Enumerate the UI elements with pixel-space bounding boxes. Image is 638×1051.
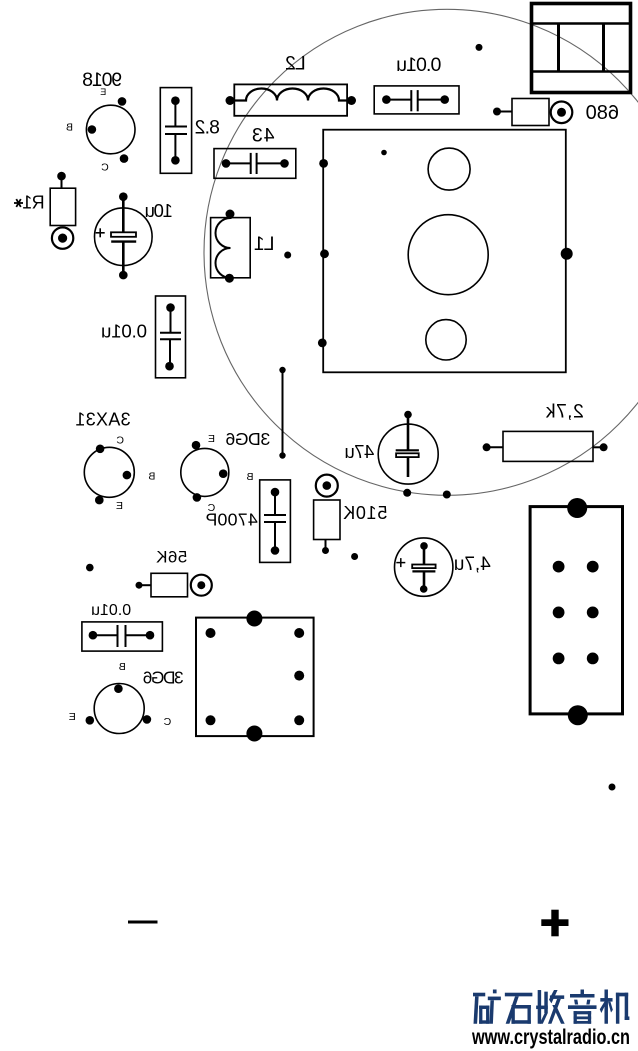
capacitor 8.2 pads [171,96,180,164]
variable capacitor hole top [428,148,470,190]
battery holder body [530,507,622,714]
capacitor 43 body [214,149,296,179]
svg-text:0.01u: 0.01u [101,321,147,342]
svg-text:C: C [163,716,171,728]
resistor 680 body [512,99,549,126]
capacitor 0.01u top body [374,86,459,114]
resistor R1 lead dot [57,172,66,181]
svg-text:2,7k: 2,7k [546,401,584,423]
capacitor 4700P symbol [264,492,286,550]
capacitor 0.01u mid body [156,296,186,378]
variable capacitor body [323,130,566,373]
resistor 56K body [151,573,188,597]
variable capacitor pad right [561,248,573,260]
resistor 2.7k body [503,431,593,461]
transistor 3DG6 mid body [181,448,229,496]
svg-text:56K: 56K [156,548,188,567]
svg-text:3DG6: 3DG6 [143,668,183,688]
resistor 56K lead [139,584,151,586]
connector J1 top-right [532,4,631,93]
resistor 510K lead [325,540,327,551]
svg-text:4700P: 4700P [205,510,257,530]
coil outline big circle [204,9,638,495]
svg-text:3AX31: 3AX31 [75,410,131,430]
wire end dots [279,367,285,459]
variable capacitor hole middle [408,215,488,295]
capacitor 10u body [95,208,153,266]
node dot top [476,44,483,51]
capacitor 0.01u bottom body [82,622,162,651]
resistor 2.7k leads [487,446,604,448]
svg-text:510K: 510K [342,503,387,523]
char ji [604,990,607,1024]
svg-text:L1: L1 [255,233,275,255]
capacitor 10u plus [96,228,105,237]
char shi [505,993,533,997]
node dot on arc [443,491,451,499]
inductor L2 pads [226,96,357,105]
svg-text:L2: L2 [286,53,306,75]
wire vertical [282,370,284,456]
svg-text:E: E [69,711,76,723]
char shou [538,990,541,1024]
transformer terminal bottom [246,726,262,742]
resistor R1 body [50,188,75,225]
resistor R1 lead [61,176,63,188]
svg-text:B: B [246,471,253,483]
svg-text:R1: R1 [22,193,44,213]
capacitor 0.01u mid symbol [160,308,181,367]
svg-text:B: B [148,470,155,482]
transformer pads [206,628,305,725]
svg-text:8.2: 8.2 [195,117,219,138]
battery holder terminal bottom [568,705,588,725]
battery holder terminal top [567,498,587,518]
resistor 2.7k lead dots [483,443,608,451]
resistor 680 pad [551,102,573,124]
transistor 3DG6 bottom pads [86,684,152,724]
transistor 3DG6 mid pads [192,441,228,502]
inductor L1 coil symbol [216,215,231,278]
svg-text:E: E [100,87,106,97]
inductor L1 body [211,218,251,278]
transistor 3AX31 body [84,447,134,497]
capacitor 4700P body [260,480,291,563]
svg-text:0.01u: 0.01u [91,602,131,619]
variable capacitor hole bottom [426,320,466,360]
resistor R1 star mark [14,199,23,207]
capacitor 4.7u body [395,538,453,596]
capacitor 47u body [378,424,438,484]
node dot below 510K [351,553,358,560]
capacitor 4.7u pads [420,542,428,593]
capacitor 8.2 body [160,88,191,174]
svg-text:C: C [101,162,109,174]
char yin [581,990,584,995]
variable capacitor pads left [318,159,329,347]
capacitor 10u symbol [111,197,136,275]
resistor 510K body [314,500,340,540]
transistor 9018 pads [88,97,129,163]
svg-text:4,7u: 4,7u [454,554,491,575]
svg-text:43: 43 [251,125,275,147]
capacitor 0.01u bottom symbol [93,625,150,647]
svg-text:E: E [208,433,215,445]
transformer body [196,618,314,737]
svg-text:C: C [116,434,124,446]
inductor L1 pads [225,210,235,283]
capacitor 43 pads [222,159,289,168]
transistor 9018 body [86,105,135,154]
inductor L2 coil symbol [230,89,350,101]
plus terminal [541,910,568,937]
svg-text:0.01u: 0.01u [397,54,441,76]
logo text chinese [473,990,629,1024]
transistor 3DG6 bottom body [94,684,144,734]
resistor 680 lead dot [493,108,501,116]
inductor L2 body [234,84,347,115]
svg-text:3DG6: 3DG6 [225,429,270,449]
svg-text:www.crystalradio.cn: www.crystalradio.cn [471,1026,630,1049]
resistor 510K pad [316,475,338,497]
resistor 56K lead dot [136,582,143,589]
transistor 3AX31 pads [95,445,131,505]
node dot right of L1 [284,252,291,259]
transformer terminal top [246,611,262,627]
char kuang [473,993,485,997]
resistor 680 lead [497,111,512,113]
capacitor 43 symbol [226,153,285,174]
capacitor 10u pads [119,192,128,279]
capacitor 4700P pads [271,488,280,555]
node dot bottom right [609,784,616,791]
battery holder pads [553,561,599,665]
svg-text:B: B [66,122,73,134]
capacitor 8.2 symbol [165,101,187,161]
small dot inside variable capacitor [381,150,387,156]
node dot left [86,564,94,572]
resistor 56K pad [191,575,212,596]
svg-text:E: E [116,500,123,512]
capacitor 0.01u top pads [382,95,449,104]
svg-text:B: B [119,661,126,673]
resistor 510K lead dot [322,547,329,554]
resistor R1 pad [52,227,73,248]
svg-text:47u: 47u [345,441,375,462]
capacitor 0.01u mid pads [165,303,175,370]
capacitor 0.01u top symbol [386,90,444,111]
svg-text:10u: 10u [145,200,173,221]
capacitor 47u symbol [396,415,419,477]
capacitor 0.01u bottom pads [89,631,155,640]
capacitor 4.7u plus [396,558,405,567]
capacitor 47u pads [403,411,412,497]
capacitor 4.7u symbol [412,546,435,589]
minus terminal [128,921,158,924]
svg-text:680: 680 [586,102,619,124]
